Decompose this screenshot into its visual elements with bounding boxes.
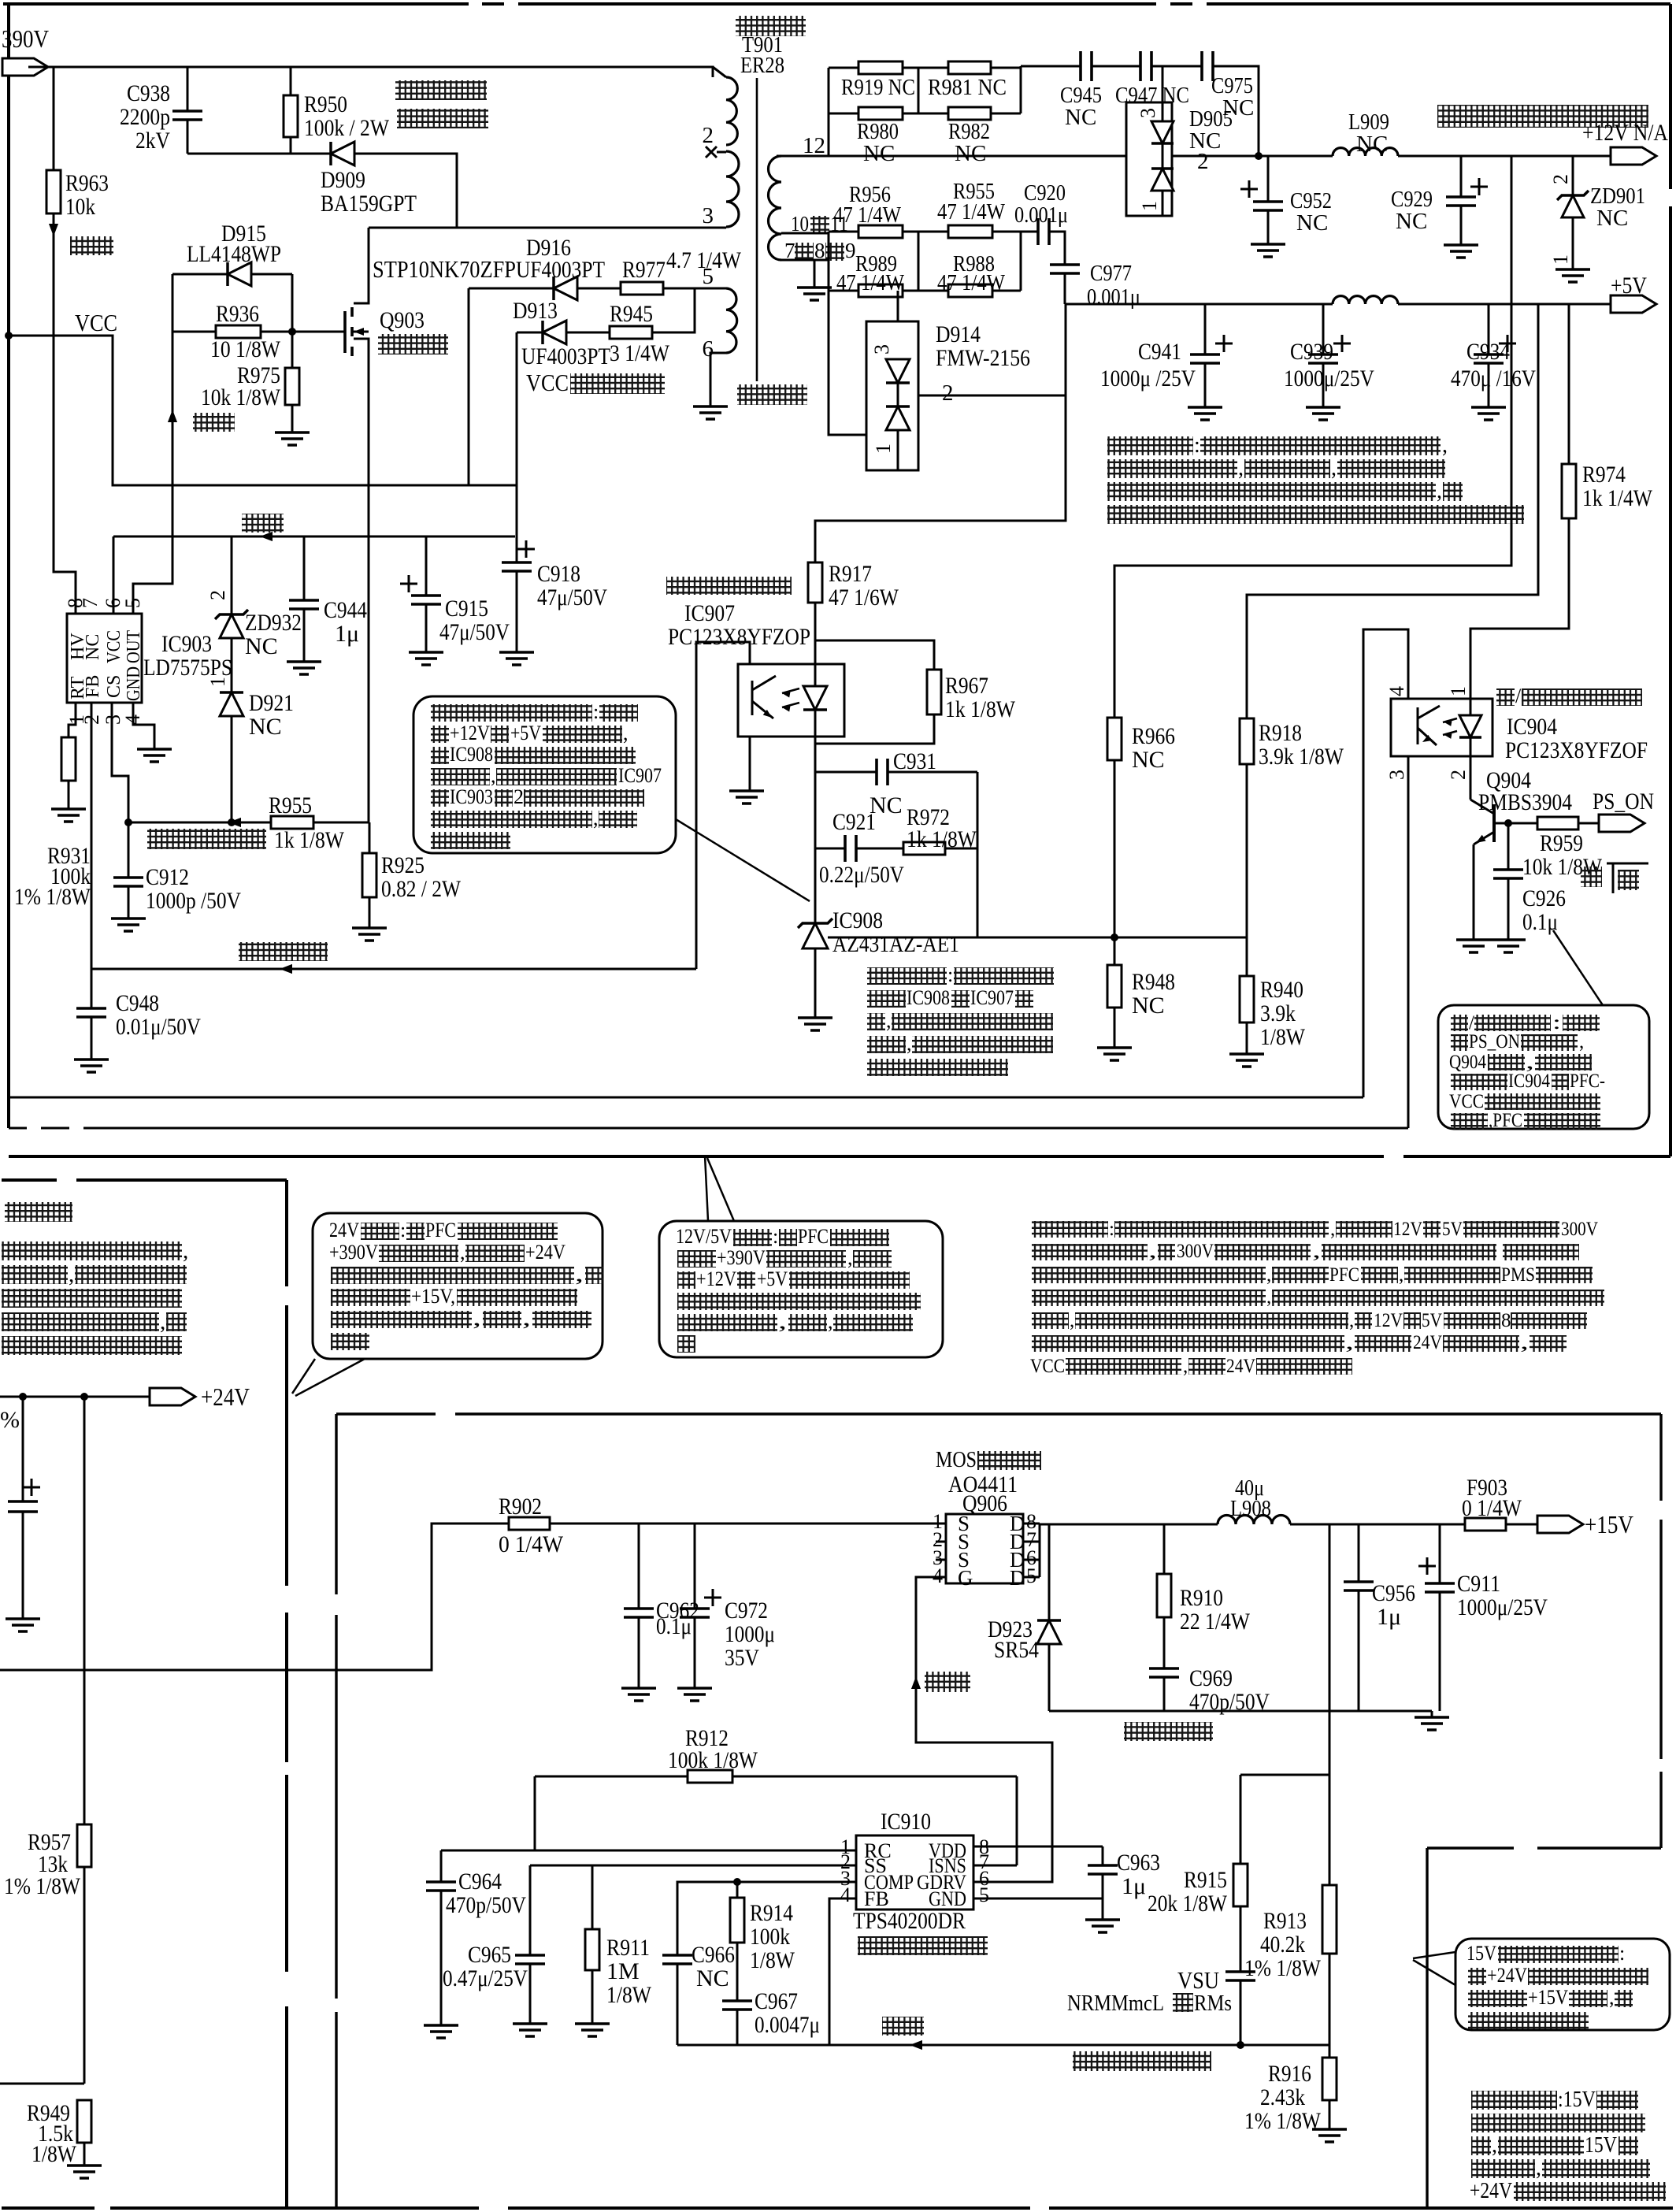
resistor R916 [1329, 2045, 1331, 2058]
capacitor C967 [722, 2001, 752, 2010]
svg-text:1μ: 1μ [335, 621, 359, 647]
resistor R955 (CS) [271, 816, 313, 829]
svg-text:1k 1/4W: 1k 1/4W [1582, 485, 1653, 511]
svg-text:5: 5 [979, 1884, 989, 1906]
transformer T901 core [756, 78, 758, 381]
svg-text:47 1/6W: 47 1/6W [829, 585, 899, 611]
diode D921 [220, 691, 243, 694]
svg-text:LL4148WP: LL4148WP [187, 241, 281, 267]
svg-text:R967: R967 [945, 673, 988, 699]
ground under IC908 [798, 1018, 832, 1030]
connector +24V [150, 1388, 195, 1405]
capacitor C947 [1140, 51, 1151, 81]
transistor Q903 MOSFET [354, 228, 369, 303]
svg-text:C921: C921 [832, 809, 876, 835]
svg-text:PFC: PFC [1329, 1264, 1359, 1286]
resistor R974 [1568, 304, 1570, 464]
label 变压器 (right) [737, 384, 807, 405]
svg-text:6: 6 [703, 336, 714, 362]
svg-text:12V: 12V [1393, 1219, 1422, 1240]
capacitor C945 [1081, 51, 1092, 81]
bottom-center block border left [335, 1414, 337, 1594]
ground under R975 [275, 432, 310, 445]
svg-text:R915: R915 [1184, 1867, 1227, 1893]
resistor R950 [290, 67, 292, 95]
svg-text:R966: R966 [1132, 723, 1175, 749]
svg-text:3: 3 [1136, 108, 1159, 118]
label 滤波电路 [1124, 1722, 1213, 1741]
svg-text:GND: GND [929, 1887, 966, 1910]
bottom border [2, 2206, 95, 2210]
svg-text:,: , [160, 1309, 165, 1334]
svg-text:D921: D921 [249, 690, 294, 716]
capacitor C938 [187, 67, 189, 111]
svg-text:R977: R977 [622, 257, 666, 283]
wire ISNS [973, 1865, 1017, 1867]
svg-text:+24V: +24V [201, 1382, 250, 1411]
resistor R977 [621, 282, 663, 295]
svg-text:RMs: RMs [1194, 1991, 1232, 2016]
svg-text:,: , [1330, 1219, 1335, 1240]
dual diode D914 [897, 291, 899, 359]
svg-text:300V: 300V [1561, 1219, 1598, 1240]
svg-text:10 1/8W: 10 1/8W [210, 336, 281, 362]
svg-text:STP10NK70ZFP: STP10NK70ZFP [373, 255, 516, 283]
resistor R931 [69, 703, 76, 737]
svg-text:+5V: +5V [1611, 273, 1647, 299]
capacitor C921 [815, 848, 845, 850]
svg-text:D914: D914 [936, 321, 981, 347]
svg-text:2: 2 [206, 590, 229, 600]
optocoupler IC904 [1391, 699, 1492, 756]
svg-text:+24V: +24V [1487, 1964, 1527, 1987]
ground under C939 [1306, 407, 1340, 420]
ground secondary tap [797, 288, 832, 300]
label 稳压光耦合器 [666, 577, 792, 595]
svg-text:MOS: MOS [936, 1448, 977, 1472]
svg-text:1000μ/25V: 1000μ/25V [1457, 1594, 1548, 1620]
svg-text:NRMMmcL: NRMMmcL [1067, 1991, 1164, 2016]
capacitor C964 [440, 1850, 443, 1882]
svg-text:IC908: IC908 [907, 986, 950, 1009]
connector +12V N/A [1611, 147, 1656, 165]
resistor R917 [808, 562, 822, 603]
svg-text:R918: R918 [1259, 720, 1302, 746]
zener ZD932 [231, 536, 233, 614]
ground under C948 [74, 1060, 109, 1072]
svg-text:R955: R955 [269, 792, 312, 818]
transformer aux winding [726, 288, 737, 353]
capacitor C934 [1488, 304, 1490, 354]
svg-text:+5V: +5V [757, 1267, 788, 1290]
svg-text:FB: FB [83, 675, 103, 698]
svg-text:2200p: 2200p [120, 104, 170, 130]
svg-text:1: 1 [1138, 201, 1161, 211]
capacitor C963 [973, 1846, 1103, 1848]
svg-text:C963: C963 [1117, 1850, 1160, 1876]
svg-text:SR54: SR54 [994, 1637, 1039, 1663]
svg-text:0 1/4W: 0 1/4W [1462, 1495, 1522, 1521]
svg-text:1/8W: 1/8W [1260, 1024, 1306, 1050]
svg-text:,: , [522, 1307, 531, 1330]
label 变压器 T901 ER28 [736, 16, 806, 36]
svg-text:PC123X8YFZOF: PC123X8YFZOF [1505, 737, 1648, 763]
svg-text:,: , [1331, 456, 1337, 481]
svg-text:470p/50V: 470p/50V [1189, 1689, 1270, 1715]
svg-text:2: 2 [703, 123, 714, 148]
connector +5V [1611, 295, 1656, 313]
capacitor C972 [694, 1524, 696, 1609]
wire COMP loop [677, 1882, 856, 1955]
svg-text:D909: D909 [321, 167, 365, 193]
svg-text:C926: C926 [1522, 885, 1566, 911]
wire +24V [0, 1396, 150, 1398]
wire CS chain [112, 703, 128, 878]
svg-text:C956: C956 [1372, 1580, 1415, 1606]
svg-text:R925: R925 [381, 852, 425, 878]
capacitor C955 [22, 1397, 24, 1501]
svg-text:C911: C911 [1457, 1571, 1500, 1597]
svg-text:,: , [1442, 433, 1448, 458]
ground IC910 [1085, 1920, 1120, 1932]
svg-text:C912: C912 [146, 864, 189, 890]
wire GND pin [973, 1898, 1103, 1920]
svg-text:IC904: IC904 [1507, 714, 1557, 740]
svg-text:,: , [1266, 1286, 1271, 1308]
connector 390V input [2, 58, 48, 76]
note 维修提示 main [1032, 1221, 1108, 1238]
ground under C972 [677, 1688, 712, 1701]
wire gate [916, 1577, 1052, 1882]
wire +5V rail [1066, 303, 1333, 306]
svg-text:R974: R974 [1582, 462, 1626, 488]
svg-text:0.001μ: 0.001μ [1014, 202, 1068, 228]
svg-text:,: , [886, 1009, 892, 1032]
svg-text:VCC: VCC [104, 630, 124, 663]
svg-text:+12V: +12V [450, 722, 490, 744]
label 二次整流滤波电路 [1437, 105, 1648, 128]
svg-text:ER28: ER28 [740, 53, 784, 78]
svg-text:10k: 10k [65, 194, 95, 220]
capacitor C977 [1050, 265, 1080, 273]
svg-text:3: 3 [703, 203, 714, 228]
svg-text:4.7 1/4W: 4.7 1/4W [666, 247, 742, 273]
wire +5V sample feed [1247, 304, 1538, 718]
resistor R911 [591, 1865, 594, 1929]
svg-text:NC: NC [696, 1965, 729, 1991]
ground Q904 emitter [1456, 940, 1491, 952]
svg-text:NC: NC [1356, 132, 1388, 157]
note left cut paragraph [2, 1241, 182, 1260]
diode D909 [329, 142, 332, 165]
wire VCC [9, 336, 517, 485]
svg-text:35V: 35V [725, 1645, 759, 1671]
svg-text::: : [1619, 1942, 1625, 1965]
svg-text:12V/5V: 12V/5V [676, 1225, 732, 1248]
resistor network R956/R955/R989/R988 [829, 231, 858, 233]
svg-text:100k: 100k [750, 1924, 790, 1950]
svg-text:2.43k: 2.43k [1260, 2084, 1305, 2110]
svg-text:NC: NC [1396, 209, 1427, 234]
ground under ZD901 [1555, 269, 1590, 282]
svg-text:470p/50V: 470p/50V [446, 1892, 526, 1918]
wire VDD riser [1016, 1776, 1018, 1865]
svg-text:NC: NC [1596, 206, 1628, 231]
svg-text:2: 2 [1197, 149, 1209, 174]
svg-text:5V: 5V [1422, 1310, 1442, 1331]
svg-text:12: 12 [803, 133, 825, 158]
wire 390V rail [28, 67, 713, 77]
ground under C929 [1444, 245, 1478, 258]
svg-text:2kV: 2kV [135, 128, 170, 154]
svg-text:47μ/50V: 47μ/50V [439, 619, 510, 645]
svg-text:22 1/4W: 22 1/4W [1180, 1609, 1251, 1635]
svg-text:PMS: PMS [1501, 1264, 1535, 1286]
capacitor C969 [1149, 1668, 1179, 1677]
dual diode D905 [1126, 102, 1172, 216]
capacitor C941 [1204, 304, 1207, 354]
svg-text:,: , [473, 1307, 481, 1330]
svg-text:D: D [1010, 1566, 1025, 1590]
svg-text:C941: C941 [1138, 339, 1181, 365]
capacitor C929 [1460, 156, 1463, 197]
resistor R945 [610, 326, 652, 339]
svg-text:FB: FB [864, 1887, 889, 1910]
svg-text:8: 8 [1501, 1310, 1511, 1331]
callout pointer 24V [292, 1359, 315, 1394]
svg-text:2: 2 [1447, 770, 1470, 780]
wire L908 out [1290, 1524, 1465, 1526]
svg-text:,: , [778, 1310, 787, 1333]
svg-text:1% 1/8W: 1% 1/8W [14, 884, 91, 910]
callout pointer 15V [1413, 1952, 1455, 1958]
svg-text:47μ/50V: 47μ/50V [537, 585, 607, 611]
capacitor C965 [529, 1865, 532, 1955]
mosfet Q906 [946, 1514, 1023, 1583]
callout 取样误差放大电路 [413, 696, 676, 853]
wire IC907 collector [696, 642, 750, 969]
callout pointer C926 [1553, 930, 1603, 1005]
resistor R980 [858, 107, 903, 120]
svg-text:VCC: VCC [526, 369, 569, 396]
svg-text:47 1/4W: 47 1/4W [937, 199, 1006, 225]
node 激励 [168, 410, 177, 422]
svg-text:,: , [1070, 1310, 1074, 1331]
svg-text:R911: R911 [606, 1935, 650, 1961]
svg-text:3: 3 [870, 344, 893, 354]
svg-text:1μ: 1μ [1377, 1604, 1401, 1630]
svg-text:,: , [183, 1238, 188, 1264]
wire IC907 emitter [749, 737, 751, 791]
svg-text:ZD932: ZD932 [245, 610, 302, 636]
svg-text:,: , [1520, 1332, 1529, 1353]
svg-text:C965: C965 [468, 1942, 511, 1968]
svg-text::: : [593, 700, 599, 723]
svg-text:100k / 2W: 100k / 2W [304, 115, 390, 141]
capacitor C952 [1267, 156, 1270, 202]
resistor R948 [1107, 965, 1122, 1008]
ground under R949 [67, 2166, 102, 2178]
svg-text:1000p /50V: 1000p /50V [146, 888, 241, 914]
svg-text:R981 NC: R981 NC [928, 75, 1007, 100]
ground under R911 [575, 2024, 610, 2036]
svg-text:R919 NC: R919 NC [841, 75, 915, 100]
wire D913 output [516, 332, 518, 562]
svg-text:FMW-2156: FMW-2156 [936, 345, 1030, 371]
resistor R972 [856, 848, 903, 850]
svg-text:GND: GND [124, 666, 144, 701]
border left edge [7, 4, 10, 1128]
wire control loop 2 [9, 1127, 27, 1130]
ground bus [1049, 1710, 1432, 1713]
wire drain bus [1039, 1524, 1041, 1577]
svg-text::: : [1109, 1219, 1114, 1240]
diode D915 [172, 273, 228, 276]
capacitor C962 [638, 1524, 640, 1609]
capacitor C926 [1507, 823, 1510, 870]
svg-text:2: 2 [942, 380, 954, 406]
svg-text:+15V: +15V [1528, 1986, 1568, 2009]
svg-text:1μ: 1μ [1122, 1873, 1146, 1899]
ground under R916 [1312, 2129, 1347, 2142]
svg-text:,: , [1609, 1986, 1615, 2009]
resistor R957 [83, 1397, 86, 1824]
svg-text:VCC: VCC [75, 309, 117, 336]
svg-text:,: , [1437, 479, 1442, 503]
svg-text:,: , [847, 1246, 853, 1269]
svg-text:1000μ /25V: 1000μ /25V [1100, 366, 1196, 392]
note 维修提示 filter caps [1107, 436, 1193, 455]
svg-text:7: 7 [79, 598, 102, 608]
svg-text:15V: 15V [1466, 1942, 1496, 1965]
wire FB chain [91, 703, 93, 1008]
callout 15V电压稳压电路 [1455, 1939, 1670, 2030]
svg-text:1: 1 [1549, 254, 1572, 265]
svg-text:1k 1/8W: 1k 1/8W [945, 696, 1016, 722]
ground under R931 [51, 809, 86, 822]
wire IC908 ref [828, 937, 977, 939]
svg-text:IC907: IC907 [684, 600, 735, 626]
border top edge [3, 2, 469, 6]
wire +12V rail [777, 155, 1333, 158]
svg-text:R902: R902 [499, 1494, 542, 1520]
svg-text:4: 4 [840, 1884, 851, 1906]
resistor network R919/R981/R980/R982 [828, 68, 830, 156]
bottom-center block border right [1659, 1414, 1662, 1501]
wire secondary taps [781, 232, 829, 235]
svg-text:Q903: Q903 [380, 307, 425, 333]
svg-text:NC: NC [863, 141, 895, 166]
wire GND pin4 [133, 703, 154, 749]
wire D916 output [468, 288, 470, 485]
connector PS_ON [1599, 815, 1644, 832]
svg-text:R959: R959 [1540, 830, 1583, 856]
svg-text:1% 1/8W: 1% 1/8W [1244, 2108, 1322, 2134]
bottom-left block border [2, 1178, 57, 1182]
svg-text:390V: 390V [2, 24, 49, 53]
wire CS protection [128, 822, 271, 824]
svg-text:40.2k: 40.2k [1260, 1932, 1305, 1958]
svg-text:47 1/4W: 47 1/4W [836, 270, 905, 295]
svg-text:12V: 12V [1374, 1310, 1403, 1331]
svg-text:,: , [575, 1263, 584, 1286]
svg-text:4: 4 [1385, 686, 1408, 696]
svg-text:2: 2 [514, 785, 524, 808]
svg-text:C944: C944 [324, 597, 367, 623]
capacitor VSU [1225, 1972, 1255, 1980]
svg-text:IC903: IC903 [450, 785, 493, 808]
svg-text:Q906: Q906 [962, 1490, 1007, 1516]
wire 24V to Q906 [550, 1523, 946, 1525]
svg-text:1000μ: 1000μ [725, 1621, 775, 1647]
svg-text:NC: NC [1132, 993, 1165, 1019]
svg-text:CS: CS [104, 675, 124, 698]
label 尖峰脉冲吸收电路 [395, 80, 487, 100]
svg-text::: : [1552, 1012, 1561, 1034]
callout pointer [676, 819, 810, 901]
svg-text:,PFC: ,PFC [1489, 1110, 1522, 1131]
svg-text:+12V N/A: +12V N/A [1582, 120, 1668, 146]
inductor L910 [1333, 296, 1398, 304]
ground under C952 [1251, 244, 1285, 257]
svg-text:IC903: IC903 [161, 631, 212, 657]
svg-text:Q904: Q904 [1449, 1052, 1486, 1073]
svg-text:BA159GPT: BA159GPT [321, 191, 417, 217]
svg-text:300V: 300V [1177, 1241, 1214, 1262]
svg-text:1/8W: 1/8W [606, 1982, 652, 2008]
resistor R959 [1537, 817, 1578, 829]
svg-text:D913: D913 [513, 298, 558, 324]
svg-text:1000μ/25V: 1000μ/25V [1284, 366, 1374, 392]
svg-text:1M: 1M [606, 1958, 640, 1984]
ground under C965 [513, 2024, 547, 2036]
svg-text:%: % [0, 1407, 20, 1433]
svg-text:1: 1 [206, 677, 229, 687]
svg-text:R936: R936 [216, 301, 259, 327]
svg-text:0 1/4W: 0 1/4W [499, 1531, 564, 1557]
svg-text:IC910: IC910 [881, 1809, 931, 1835]
svg-text:C934: C934 [1466, 339, 1510, 365]
resistor R989 [858, 284, 903, 297]
ground under C912 [111, 919, 146, 931]
svg-text::: : [773, 1225, 778, 1248]
svg-text:47 1/4W: 47 1/4W [937, 270, 1006, 295]
svg-text:C948: C948 [116, 990, 159, 1016]
svg-text:+5V: +5V [510, 722, 541, 744]
zener ZD901 [1572, 156, 1574, 195]
svg-text:,: , [1238, 456, 1244, 481]
svg-text:9: 9 [845, 239, 856, 262]
svg-text:3 1/4W: 3 1/4W [610, 340, 670, 366]
connector +15V [1537, 1516, 1583, 1533]
svg-text:PFC-: PFC- [1570, 1071, 1605, 1092]
capacitor C939 [1322, 304, 1325, 354]
resistor R918 [1240, 718, 1254, 764]
transformer secondary winding [769, 156, 781, 260]
note 维修提示 15V [1471, 2091, 1557, 2110]
ground under C918 [499, 652, 534, 665]
svg-text:0.0047μ: 0.0047μ [755, 2012, 820, 2038]
svg-text::: : [1194, 433, 1200, 458]
svg-text:,: , [1399, 1264, 1403, 1286]
svg-text:1/8W: 1/8W [32, 2141, 77, 2167]
ground under C941 [1188, 407, 1222, 420]
svg-text:R940: R940 [1260, 977, 1303, 1003]
svg-text::: : [400, 1219, 406, 1241]
wire snubber caps row [1021, 65, 1081, 68]
callout 24V电源 [313, 1213, 603, 1359]
svg-text:,: , [1536, 2156, 1541, 2180]
